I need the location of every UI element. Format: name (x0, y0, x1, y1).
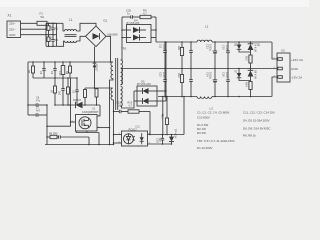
svg-text:4n7: 4n7 (158, 138, 161, 143)
resistor R14 (249, 82, 252, 97)
connector X2 (277, 53, 290, 82)
capacitor C15p (72, 78, 79, 105)
primary ground rail (45, 144, 114, 146)
L3 label (210, 107, 214, 111)
svg-text:220~: 220~ (9, 22, 16, 26)
D5 label (137, 80, 151, 87)
svg-text:PC817: PC817 (129, 127, 138, 131)
junction dots filter (45, 23, 54, 48)
svg-text:TR1 Tr 67-3-T, 41-2002-1502: TR1 Tr 67-3-T, 41-2002-1502 (197, 139, 235, 143)
filter labels (51, 26, 59, 42)
LED D7 (237, 69, 251, 81)
U1 label (82, 107, 99, 114)
capacitor C10 (61, 62, 65, 78)
capacitor C20 (122, 15, 140, 18)
resistor R12 (163, 69, 167, 97)
output bends (272, 42, 277, 59)
FR207 label (73, 98, 82, 102)
svg-text:4,7: 4,7 (143, 11, 147, 15)
svg-text:BYV26-200: BYV26-200 (137, 82, 151, 86)
row labels (116, 102, 133, 108)
secondary top pin wire (121, 48, 123, 60)
vertical x47 (46, 105, 48, 145)
svg-text:100n: 100n (162, 44, 165, 50)
diode D8 (248, 42, 254, 55)
inductor L2 (197, 40, 212, 42)
svg-text:R3 2W: R3 2W (197, 131, 206, 135)
svg-text:D1 2A 600V: D1 2A 600V (197, 146, 212, 150)
svg-text:1000u: 1000u (209, 44, 212, 52)
capacitor C6 (28, 103, 47, 106)
svg-text:FR207: FR207 (73, 98, 82, 102)
svg-text:C10 630V: C10 630V (197, 116, 210, 120)
fuse F1 (37, 21, 63, 25)
R9 label (143, 9, 147, 16)
capacitor C9 (53, 62, 56, 78)
svg-text:KBU808: KBU808 (108, 32, 119, 36)
svg-text:5A: 5A (41, 15, 45, 19)
input filter frame (46, 23, 57, 46)
svg-text:C1, C2, C3, C4, C5 680V: C1, C2, C3, C4, C5 680V (197, 111, 230, 115)
capacitor C2 (51, 35, 54, 47)
left vertical (27, 62, 29, 115)
svg-text:KA5Q0865RT: KA5Q0865RT (82, 110, 99, 114)
svg-text:L2: L2 (205, 25, 209, 29)
capacitor C15 (226, 42, 230, 69)
svg-text:4n7: 4n7 (36, 110, 41, 113)
feedback row C21 R19 C17 R10 (114, 110, 151, 135)
resistor R6 (69, 62, 72, 78)
C20 label (126, 9, 131, 16)
svg-text:D8 4,9A: D8 4,9A (253, 70, 256, 79)
svg-text:100n: 100n (162, 72, 165, 78)
svg-text:47u: 47u (36, 100, 41, 103)
TR1 label (121, 47, 127, 51)
svg-text:C10: C10 (58, 71, 61, 76)
primary row labels (27, 70, 68, 76)
svg-text:FR207: FR207 (94, 64, 97, 72)
svg-text:100n: 100n (225, 72, 228, 78)
svg-text:R8 0R5: R8 0R5 (49, 133, 58, 136)
svg-text:GND: GND (291, 67, 299, 71)
D4 label (127, 18, 140, 25)
resistor R11 (163, 42, 167, 69)
vcc drop to IC (97, 105, 100, 116)
resistor R8 (47, 122, 89, 145)
zener diode D10 (169, 135, 174, 145)
DC bus from bridge (106, 36, 111, 62)
vertical x122 (121, 17, 123, 48)
resistor R5 (32, 62, 35, 78)
svg-text:D6, D8, D14 BY435C: D6, D8, D14 BY435C (243, 127, 270, 131)
dual diode D5 (134, 86, 166, 106)
svg-text:R13: R13 (244, 56, 247, 61)
svg-text:L1: L1 (69, 18, 73, 22)
resistor R2 (47, 35, 50, 47)
inductor L3 (197, 97, 212, 99)
optocoupler IC2 PC817 (114, 131, 185, 146)
transformer TR1 primary winding (110, 58, 123, 145)
capacitor C13 electrolytic (213, 42, 218, 69)
svg-text:1n: 1n (127, 11, 130, 15)
svg-text:-15V 2A: -15V 2A (291, 76, 303, 80)
svg-text:C11, C12, C13, C14 25V: C11, C12, C13, C14 25V (243, 111, 275, 115)
choke input wires (63, 23, 65, 31)
C7 label (36, 107, 41, 113)
capacitor C5 (61, 78, 64, 105)
diode D9 (248, 69, 254, 82)
capacitor C8 (42, 62, 45, 78)
X1 pin labels (8, 14, 16, 38)
svg-text:R11: R11 (177, 46, 180, 51)
svg-text:R12: R12 (177, 73, 180, 78)
IC U1 KA5Q0865RT (71, 115, 110, 145)
diode D2 FR207 (76, 102, 101, 108)
aux top pin wire + resistor R4 (84, 88, 113, 105)
notes text block right (243, 111, 275, 138)
feedback resistor R16 (165, 97, 168, 135)
IC2 label (129, 125, 141, 132)
capacitor C11 (180, 42, 183, 69)
svg-text:R6, R8 1k: R6, R8 1k (243, 134, 256, 138)
capacitor C14 electrolytic (213, 69, 218, 97)
primary top rail (28, 61, 113, 63)
choke output wires (77, 23, 97, 31)
resistor R13 (249, 55, 252, 69)
aux line (55, 104, 76, 106)
capacitor C12 (180, 69, 183, 97)
svg-text:4,7: 4,7 (129, 105, 133, 108)
bottom output rail (158, 96, 197, 98)
bridge rectifier D1 (86, 26, 107, 47)
primary mid rail (33, 77, 77, 79)
diode D3 (93, 63, 98, 88)
connector X1 (7, 21, 57, 38)
svg-text:R14: R14 (244, 82, 247, 87)
capacitor C18 (155, 135, 164, 145)
svg-text:1000u: 1000u (209, 72, 212, 80)
vertical to IC pin1 (70, 78, 72, 122)
dual diode D4 (122, 25, 156, 43)
resistor R1 (47, 23, 50, 34)
C6 label (36, 97, 41, 103)
L2 label (205, 25, 209, 29)
svg-text:GND: GND (9, 33, 15, 37)
capacitor C16 (226, 69, 230, 97)
vertical x152 (155, 17, 157, 42)
svg-text:BYV26-200: BYV26-200 (127, 22, 140, 25)
feedback resistor R15 (162, 97, 164, 135)
LED D6 (237, 42, 251, 52)
svg-text:2n2: 2n2 (57, 91, 60, 96)
X2 labels (281, 49, 304, 80)
svg-text:X2: X2 (281, 49, 285, 53)
resistor R7 (54, 78, 57, 105)
svg-text:+15V 2A: +15V 2A (291, 58, 304, 62)
svg-text:100: 100 (117, 105, 122, 108)
D1 labels (104, 19, 119, 37)
common-mode choke L1 (65, 30, 77, 43)
capacitor C13s (189, 42, 193, 69)
vertical x181 (183, 97, 185, 135)
resistor R9 (140, 15, 156, 18)
svg-text:220~: 220~ (9, 28, 16, 32)
resistor R3 (67, 78, 70, 105)
svg-text:D4, D5 15-29A 200V: D4, D5 15-29A 200V (243, 119, 270, 123)
long vertical x166 (165, 42, 167, 101)
capacitor C7 (28, 113, 47, 116)
F1 label (40, 12, 45, 19)
svg-text:D1: D1 (104, 19, 108, 23)
svg-text:X1: X1 (8, 14, 12, 18)
svg-text:TP-4,3A: TP-4,3A (173, 129, 176, 139)
secondary bottom pin wire (121, 91, 135, 108)
secondary center tap wire (121, 69, 278, 85)
capacitor C1 (51, 23, 54, 34)
notes text block left (197, 111, 235, 151)
top output rail (156, 41, 197, 43)
bridge bottom drop (94, 47, 96, 64)
capacitor C14s (189, 69, 193, 97)
opto left wires (113, 112, 115, 145)
L1 label (69, 18, 73, 22)
svg-text:100n: 100n (225, 45, 228, 51)
